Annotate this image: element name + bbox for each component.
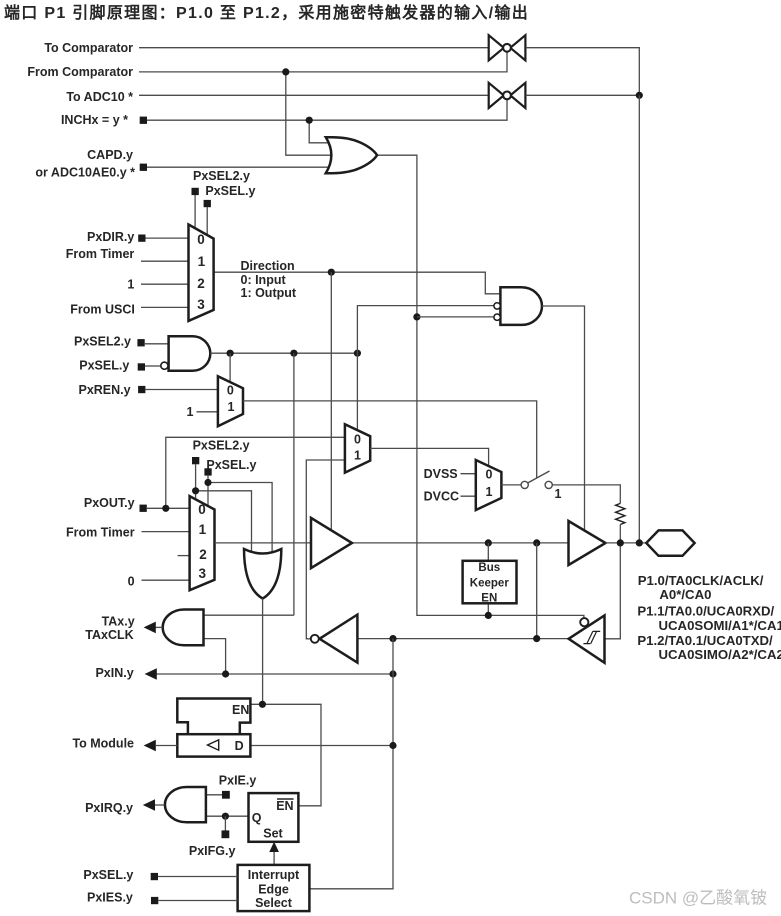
register bit PxDIR square xyxy=(138,235,145,242)
clock triangle in latch xyxy=(208,740,219,750)
wire CAPD.y to OR gate xyxy=(147,166,334,168)
wire PxIRQ AND top input xyxy=(206,794,222,796)
svg-text:PxSEL.y: PxSEL.y xyxy=(79,358,129,372)
svg-text:端口 P1 引脚原理图：P1.0 至 P1.2，采用施密特触: 端口 P1 引脚原理图：P1.0 至 P1.2，采用施密特触发器的输入/输出 xyxy=(4,3,529,22)
wire PxSEL.y to AND U2 bubble xyxy=(145,365,161,367)
svg-text:PxREN.y: PxREN.y xyxy=(78,383,130,397)
wire switch to resistor xyxy=(552,485,620,504)
wire PxDIR.y to mux input 0 xyxy=(146,237,191,239)
wire bus keeper top tap xyxy=(487,543,489,561)
svg-text:D: D xyxy=(235,739,244,753)
mux M5 PxOUT xyxy=(190,496,215,590)
node U2 output junction c xyxy=(354,350,361,357)
node schmitt output junction a xyxy=(533,635,540,642)
wire U5 output down to latch EN xyxy=(262,598,264,704)
node pad junction d xyxy=(636,539,643,546)
wire PxOUT.y to OUT mux input 0 xyxy=(147,507,191,509)
wire output buffer to pad xyxy=(606,542,648,544)
node U2 output junction a xyxy=(227,350,234,357)
node pad junction b xyxy=(533,539,540,546)
svg-text:PxIN.y: PxIN.y xyxy=(95,666,133,680)
svg-text:0: 0 xyxy=(198,502,206,517)
register bit PxSEL square (edge select) xyxy=(151,873,158,880)
wire select1 branch to OR U5 left input xyxy=(196,491,252,552)
arrowhead PxIN.y xyxy=(145,668,157,680)
wire TAx AND bottom input from PxIN rail xyxy=(204,639,226,674)
svg-text:0: 0 xyxy=(197,232,205,247)
mux M3 keeper select xyxy=(345,424,370,472)
inverter bubble U4 middle input xyxy=(494,303,500,309)
switch SW1 (PxREN controlled) xyxy=(521,471,552,489)
wire PxOUT feedback to M3 mux input 0 xyxy=(166,437,346,508)
register bit PxSEL2 square xyxy=(137,339,144,346)
wire TAx output arrow xyxy=(155,626,163,628)
wire OR U1 output down to schmitt enable xyxy=(377,155,584,620)
mux M2 PxREN xyxy=(218,376,243,426)
wire DVCC to mux input 1 xyxy=(461,495,478,497)
wire edge select to Set arrow xyxy=(273,851,275,865)
node PxIN junction b xyxy=(389,670,396,677)
wire M4 output to switch xyxy=(501,484,521,486)
wire schmitt output rail xyxy=(358,638,569,640)
svg-text:1: 1 xyxy=(187,405,194,419)
svg-text:Select: Select xyxy=(255,896,293,910)
svg-text:From Timer: From Timer xyxy=(66,247,135,261)
svg-text:1: Output: 1: Output xyxy=(241,286,297,300)
svg-text:INCHx = y *: INCHx = y * xyxy=(61,113,128,127)
svg-text:PxDIR.y: PxDIR.y xyxy=(87,230,134,244)
svg-text:TAxCLK: TAxCLK xyxy=(85,628,133,642)
wire M3 input 1 from inverter output xyxy=(306,460,346,639)
svg-text:Interrupt: Interrupt xyxy=(248,868,300,882)
wire DVSS to mux input 0 xyxy=(461,473,478,475)
wire U2 output rail xyxy=(210,352,357,354)
wire to AND U4 bubble input and M3 select xyxy=(357,306,494,431)
wire select1 into DIR mux xyxy=(194,195,196,229)
svg-text:Q: Q xyxy=(252,811,262,825)
svg-text:3: 3 xyxy=(198,566,206,581)
svg-text:TAx.y: TAx.y xyxy=(102,615,135,629)
wire bus keeper bottom to enable line xyxy=(487,603,489,615)
wire U4 output to output buffer enable xyxy=(542,306,585,531)
arrowhead Set xyxy=(269,842,279,852)
wire constant 0 to OUT mux input 3 xyxy=(142,579,192,581)
wire stub OUT mux input 2 xyxy=(178,555,191,557)
wire INCHx branch to OR gate xyxy=(309,120,334,143)
svg-text:1: 1 xyxy=(127,278,134,292)
svg-text:Bus: Bus xyxy=(478,562,500,574)
schmitt hysteresis symbol xyxy=(583,631,600,643)
wire select1 into OUT mux xyxy=(195,464,197,500)
wire PxSEL2.y to AND U2 xyxy=(145,343,169,345)
node Q output junction xyxy=(222,813,229,820)
node right rail junction xyxy=(636,92,643,99)
svg-text:DVSS: DVSS xyxy=(424,467,458,481)
wire latch EN to interrupt flag EN xyxy=(250,704,321,806)
mux M1 PxDIR select xyxy=(189,225,214,321)
register bit PxSEL2 square (OUT mux select) xyxy=(192,457,199,464)
register bit PxSEL square (OUT mux select) xyxy=(204,468,211,475)
wire INCHx = y xyxy=(147,100,507,121)
svg-text:PxSEL2.y: PxSEL2.y xyxy=(193,438,250,452)
svg-text:From USCI: From USCI xyxy=(70,303,135,317)
svg-text:Keeper: Keeper xyxy=(470,578,510,590)
svg-text:PxSEL2.y: PxSEL2.y xyxy=(74,335,131,349)
wire select to REN mux xyxy=(229,353,231,382)
svg-text:PxOUT.y: PxOUT.y xyxy=(84,496,135,510)
pad P1.x bonding pad xyxy=(646,530,694,555)
svg-text:UCA0SOMI/A1*/CA1: UCA0SOMI/A1*/CA1 xyxy=(659,618,781,633)
resistor R1 xyxy=(616,503,625,524)
arrowhead TAx output xyxy=(144,622,156,634)
wire constant 1 to mux input 2 xyxy=(141,283,190,285)
svg-text:PxIRQ.y: PxIRQ.y xyxy=(85,801,133,815)
wire pad line (driver to output buffer) xyxy=(352,542,569,544)
svg-text:Edge: Edge xyxy=(258,883,289,897)
wire From Timer to mux input 1 xyxy=(141,260,190,262)
node OR output rail junction at AND input xyxy=(413,313,420,320)
driver buffer B1 xyxy=(311,518,352,568)
svg-text:To Module: To Module xyxy=(72,737,134,751)
wire select2 branch to OR U5 right input xyxy=(208,483,272,553)
svg-text:P1.2/TA0.1/UCA0TXD/: P1.2/TA0.1/UCA0TXD/ xyxy=(637,633,773,648)
inverter B4 xyxy=(320,615,358,663)
svg-text:CAPD.y: CAPD.y xyxy=(87,148,133,162)
svg-text:From Timer: From Timer xyxy=(66,525,135,539)
node INCHx junction xyxy=(306,117,313,124)
register bit CAPD square xyxy=(140,164,147,171)
wire switch U2 output to right rail xyxy=(526,48,640,96)
register bit PxSEL square (DIR mux select) xyxy=(204,200,211,207)
wire To ADC10 xyxy=(139,94,488,96)
wire Direction output to AND U4 xyxy=(214,272,501,294)
wire Q junction down to PxIFG xyxy=(224,816,226,830)
svg-text:PxSEL.y: PxSEL.y xyxy=(205,184,255,198)
svg-text:EN: EN xyxy=(232,703,249,717)
inverter bubble B4 xyxy=(311,635,319,643)
svg-text:PxIES.y: PxIES.y xyxy=(87,891,133,905)
wire OUT mux output to driver buffer xyxy=(215,542,313,544)
register bit PxSEL2 square (DIR mux select) xyxy=(192,188,199,195)
node pad junction a xyxy=(485,539,492,546)
node PxOUT feedback junction xyxy=(162,505,169,512)
svg-text:or ADC10AE0.y *: or ADC10AE0.y * xyxy=(35,166,135,180)
svg-text:A0*/CA0: A0*/CA0 xyxy=(659,587,711,602)
or-gate U1 xyxy=(326,137,377,173)
node From Comparator junction xyxy=(282,68,289,75)
and-gate U4 (direction logic) xyxy=(500,287,542,325)
svg-text:1: 1 xyxy=(354,449,361,463)
wire PxIN.y xyxy=(156,673,393,675)
node U2 output junction b xyxy=(290,350,297,357)
svg-text:DVCC: DVCC xyxy=(424,490,459,504)
analog switch U3 (to ADC10) xyxy=(489,83,526,108)
svg-text:EN: EN xyxy=(276,799,293,813)
svg-text:3: 3 xyxy=(197,297,205,312)
svg-text:EN: EN xyxy=(481,592,497,604)
svg-text:0: 0 xyxy=(486,467,493,481)
svg-text:PxSEL2.y: PxSEL2.y xyxy=(193,169,250,183)
and-gate U7 PxIRQ xyxy=(165,787,206,822)
node pad junction c xyxy=(617,539,624,546)
register bit PxIES square xyxy=(151,897,158,904)
wire TAx AND top input xyxy=(204,614,294,616)
svg-text:PxIFG.y: PxIFG.y xyxy=(189,844,236,858)
register bit PxIFG square xyxy=(222,830,230,838)
wire OR rail to AND U4 lower bubble xyxy=(417,316,495,318)
svg-text:PxIE.y: PxIE.y xyxy=(219,773,257,787)
arrowhead PxIRQ xyxy=(143,799,155,811)
svg-text:PxSEL.y: PxSEL.y xyxy=(206,458,256,472)
schmitt trigger B3 xyxy=(569,615,605,662)
node latch D junction xyxy=(389,742,396,749)
wire Direction down to driver buffer enable xyxy=(330,272,332,530)
bus keeper box xyxy=(463,561,517,604)
wire PxSEL.y to edge select box xyxy=(158,876,238,878)
svg-text:2: 2 xyxy=(199,547,207,562)
and-gate U6 TAx xyxy=(163,610,204,646)
inverter bubble on U2 input xyxy=(161,362,168,369)
wire From Timer to OUT mux input 1 xyxy=(142,531,192,533)
wire PxIES.y to edge select box xyxy=(158,900,237,902)
svg-text:To Comparator: To Comparator xyxy=(44,41,133,55)
register bit INCHx square xyxy=(140,117,147,124)
node enable line junction xyxy=(485,612,492,619)
wire M3 output to DVSS/DVCC mux select xyxy=(370,448,488,467)
svg-text:1: 1 xyxy=(228,400,235,414)
svg-text:Direction: Direction xyxy=(241,259,295,273)
latch L1 D section xyxy=(177,734,250,756)
wire To Comparator xyxy=(139,47,488,49)
arrowhead To Module xyxy=(144,740,156,752)
svg-text:P1.1/TA0.0/UCA0RXD/: P1.1/TA0.0/UCA0RXD/ xyxy=(637,604,774,619)
wire From Comparator xyxy=(139,52,507,72)
and-gate U2 (PxSEL2 and not PxSEL) xyxy=(169,336,211,371)
wire pad to schmitt output rail xyxy=(536,543,538,639)
or-gate U5 (pointing down) xyxy=(244,549,281,599)
wire pad down to schmitt input xyxy=(605,543,620,639)
svg-text:CSDN @乙酸氧铍: CSDN @乙酸氧铍 xyxy=(629,889,767,908)
svg-text:1: 1 xyxy=(198,254,206,269)
inverter bubble U4 lower input xyxy=(494,314,500,320)
svg-text:Set: Set xyxy=(263,827,283,841)
mux M4 DVSS/DVCC xyxy=(476,460,502,510)
wire down to TAx AND gate input xyxy=(293,353,295,615)
wire constant 1 to REN mux input 1 xyxy=(197,411,220,413)
register bit PxREN square xyxy=(138,386,145,393)
node schmitt output junction b xyxy=(389,635,396,642)
register bit PxSEL square xyxy=(138,363,145,370)
node PxIN junction a xyxy=(222,670,229,677)
wire From USCI to mux input 3 xyxy=(141,306,190,308)
wire REN mux output to pullup switch xyxy=(243,401,537,478)
svg-text:To ADC10 *: To ADC10 * xyxy=(66,90,133,104)
wire pin input rail down to interrupt edge select xyxy=(310,639,393,889)
wire PxIRQ output arrow xyxy=(154,804,165,806)
node select1 junction xyxy=(192,487,199,494)
svg-text:0: 0 xyxy=(128,574,135,588)
latch L1 EN section xyxy=(177,699,250,734)
svg-text:1: 1 xyxy=(486,485,493,499)
wire latch D input xyxy=(250,745,393,747)
svg-text:UCA0SIMO/A2*/CA2: UCA0SIMO/A2*/CA2 xyxy=(659,647,781,662)
node select2 junction xyxy=(204,479,211,486)
svg-text:1: 1 xyxy=(199,522,207,537)
svg-text:From Comparator: From Comparator xyxy=(27,65,133,79)
svg-text:1: 1 xyxy=(555,487,562,501)
wire PxIRQ AND bottom input from flag Q xyxy=(206,815,249,817)
wire select2 into DIR mux xyxy=(206,207,208,236)
interrupt flag latch F1 xyxy=(249,793,299,842)
wire right rail down to pad xyxy=(638,95,640,543)
svg-text:0: 0 xyxy=(354,433,361,447)
svg-text:PxSEL.y: PxSEL.y xyxy=(83,868,133,882)
wire PxREN.y to REN mux input 0 xyxy=(145,389,219,391)
svg-text:0: 0 xyxy=(227,384,234,398)
wire switch U3 output xyxy=(526,94,640,96)
wire To Module xyxy=(156,745,177,747)
wire resistor to pad line xyxy=(619,525,621,543)
svg-text:2: 2 xyxy=(197,276,205,291)
wire From Comparator branch to OR gate xyxy=(286,72,334,155)
output buffer B2 xyxy=(569,521,606,565)
node latch EN junction xyxy=(259,701,266,708)
overline on EN xyxy=(277,798,294,800)
analog switch U2 (to comparator) xyxy=(489,35,526,60)
enable bubble on schmitt B3 xyxy=(580,618,588,626)
svg-text:P1.0/TA0CLK/ACLK/: P1.0/TA0CLK/ACLK/ xyxy=(638,573,764,588)
interrupt edge select box F2 xyxy=(238,865,310,911)
register bit PxIE square xyxy=(222,791,230,799)
wire select2 into OUT mux xyxy=(207,476,209,507)
node Direction junction xyxy=(328,269,335,276)
register bit PxOUT square xyxy=(140,505,147,512)
